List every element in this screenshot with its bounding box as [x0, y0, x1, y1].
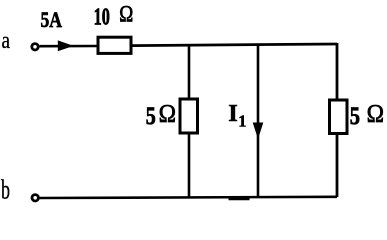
terminal a [32, 44, 38, 50]
svg-text:I: I [228, 100, 238, 127]
label 10 ohm [94, 2, 134, 31]
wire a to resistor [40, 45, 98, 48]
wire bottom thick segment [229, 196, 250, 200]
svg-text:Ω: Ω [367, 100, 384, 127]
wire top [133, 44, 338, 46]
label I1 [228, 100, 246, 130]
resistor R1 10ohm [98, 37, 131, 53]
svg-text:5A: 5A [41, 7, 63, 32]
label 5 ohm right [350, 100, 384, 129]
terminal b [32, 195, 38, 201]
svg-text:Ω: Ω [119, 2, 133, 28]
svg-text:10: 10 [94, 4, 110, 31]
svg-text:b: b [1, 175, 10, 205]
wire bottom [39, 197, 337, 198]
svg-text:a: a [2, 27, 11, 54]
wire branch2 [257, 45, 260, 199]
resistor R2 5ohm left [180, 99, 198, 133]
label 5A [41, 7, 63, 32]
svg-text:5: 5 [350, 103, 360, 130]
wire branch1 lower [188, 133, 191, 199]
svg-text:1: 1 [238, 111, 246, 130]
svg-text:5: 5 [146, 103, 156, 130]
node a [2, 27, 11, 54]
wire branch1 upper [188, 44, 191, 99]
resistor R3 5ohm right [330, 100, 348, 134]
wire branch3 upper [336, 43, 339, 101]
label 5 ohm left [146, 100, 176, 129]
current arrowhead I1 [253, 123, 264, 140]
svg-text:Ω: Ω [159, 100, 176, 127]
current arrow 5A [58, 40, 74, 51]
wire branch3 lower [336, 134, 339, 198]
node b [1, 175, 10, 205]
